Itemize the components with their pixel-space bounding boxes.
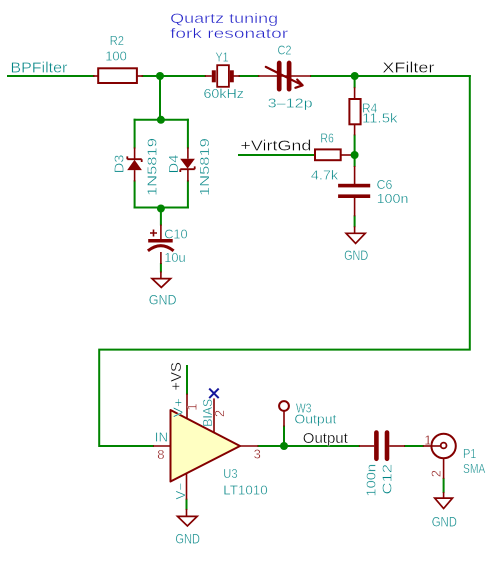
- svg-text:1N5819: 1N5819: [197, 138, 212, 196]
- svg-text:60kHz: 60kHz: [204, 86, 244, 101]
- svg-text:10u: 10u: [164, 250, 185, 265]
- svg-text:U3: U3: [223, 466, 237, 481]
- svg-text:2: 2: [429, 470, 444, 477]
- svg-text:1: 1: [424, 433, 431, 448]
- svg-text:Quartz tuning: Quartz tuning: [170, 11, 278, 26]
- svg-text:100n: 100n: [363, 464, 378, 497]
- svg-text:D4: D4: [166, 155, 181, 174]
- svg-text:C12: C12: [380, 464, 395, 495]
- svg-text:+VirtGnd: +VirtGnd: [240, 138, 311, 155]
- svg-text:GND: GND: [344, 247, 368, 263]
- svg-text:GND: GND: [149, 292, 177, 308]
- svg-text:100n: 100n: [377, 191, 409, 206]
- svg-text:Output: Output: [294, 412, 336, 427]
- svg-text:+VS: +VS: [168, 362, 185, 391]
- svg-text:BPFilter: BPFilter: [10, 59, 67, 76]
- svg-text:R6: R6: [320, 131, 334, 146]
- svg-text:3: 3: [254, 447, 261, 462]
- svg-text:R2: R2: [110, 33, 125, 48]
- svg-text:1N5819: 1N5819: [145, 138, 160, 196]
- svg-text:8: 8: [157, 447, 164, 462]
- svg-text:4.7k: 4.7k: [311, 168, 339, 183]
- svg-text:11.5k: 11.5k: [362, 111, 398, 126]
- svg-text:3–12p: 3–12p: [268, 96, 313, 111]
- svg-text:GND: GND: [175, 530, 200, 546]
- svg-text:D3: D3: [111, 155, 126, 174]
- svg-text:V−: V−: [173, 483, 188, 500]
- svg-text:IN: IN: [155, 430, 168, 445]
- svg-text:P1: P1: [463, 446, 476, 461]
- svg-text:100: 100: [105, 49, 127, 64]
- svg-text:C10: C10: [164, 227, 188, 242]
- svg-text:LT1010: LT1010: [223, 483, 267, 498]
- svg-text:XFilter: XFilter: [382, 60, 434, 77]
- svg-text:C6: C6: [377, 177, 393, 192]
- svg-text:SMA: SMA: [463, 461, 486, 476]
- svg-text:1: 1: [185, 403, 200, 410]
- svg-text:GND: GND: [432, 513, 457, 529]
- svg-text:V+: V+: [170, 398, 185, 417]
- svg-text:C2: C2: [278, 43, 292, 58]
- svg-text:2: 2: [212, 410, 227, 417]
- svg-text:fork resonator: fork resonator: [170, 26, 289, 41]
- svg-text:Y1: Y1: [216, 50, 229, 65]
- svg-text:Output: Output: [303, 430, 349, 447]
